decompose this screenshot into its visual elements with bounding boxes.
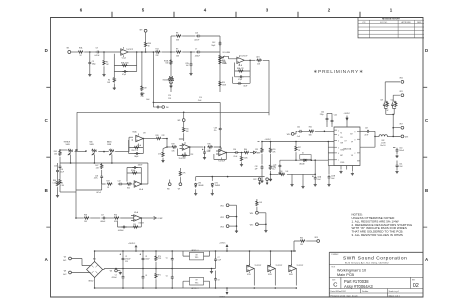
resistor R40: [244, 149, 250, 154]
wire bridge outputs: [94, 250, 104, 289]
svg-text:R35: R35: [208, 143, 211, 145]
resistor R28: [131, 169, 137, 174]
svg-text:COMP: COMP: [157, 218, 163, 220]
wire speaker rail: [392, 114, 400, 137]
svg-text:W11: W11: [220, 205, 223, 207]
ground C7A: [189, 73, 192, 76]
wire U4B out: [226, 152, 234, 154]
svg-text:W18: W18: [405, 137, 408, 139]
ground pads link 2: [264, 230, 267, 233]
wire to tone stack: [161, 51, 171, 53]
svg-text:C2: C2: [115, 275, 117, 277]
svg-text:R61: R61: [309, 127, 312, 129]
svg-text:APPROVED: APPROVED: [402, 21, 412, 24]
svg-text:R9: R9: [176, 48, 178, 50]
wire R35 to U4B: [214, 146, 221, 151]
resistor R6: [141, 51, 147, 93]
capacitor C42: [297, 127, 304, 138]
svg-text:W14: W14: [250, 213, 254, 215]
svg-text:W6: W6: [166, 107, 169, 109]
svg-text:CR3: CR3: [198, 182, 201, 184]
svg-text:INV: INV: [340, 137, 342, 139]
resistor R34 above W7: [179, 168, 186, 183]
capacitor C11: [238, 75, 244, 81]
svg-text:VP: VP: [351, 141, 353, 143]
svg-text:634: 634: [166, 63, 169, 65]
resistor R63B: [393, 101, 398, 114]
wire U1B output: [244, 60, 255, 62]
ground R6: [140, 93, 143, 96]
svg-text:R52: R52: [255, 149, 258, 151]
voltage regulator U8 7815: [183, 250, 210, 260]
capacitor C22: [118, 180, 124, 185]
capacitor C14 branch tap: [153, 102, 161, 108]
svg-text:C36: C36: [60, 169, 63, 171]
op-amp U4B: [216, 148, 226, 163]
capacitor C12 loop: [233, 77, 251, 88]
capacitor C44A: [273, 160, 281, 172]
capacitor C24: [127, 165, 142, 173]
svg-text:10uF: 10uF: [146, 99, 150, 101]
wire amp input: [296, 131, 334, 133]
svg-text:C17: C17: [101, 214, 104, 216]
ground C43B: [327, 184, 330, 187]
diode CR4: [211, 177, 220, 188]
wire loop upper branch: [153, 95, 221, 112]
svg-text:BST: BST: [340, 155, 343, 157]
capacitor C39 column: [255, 142, 264, 181]
svg-text:W8: W8: [178, 120, 181, 122]
node pad AC1 W2: [63, 256, 90, 265]
wire C30 junction: [239, 152, 243, 154]
resistor R26: [156, 135, 166, 140]
svg-text:REV: REV: [412, 279, 415, 281]
svg-text:W7: W7: [178, 189, 181, 191]
resistor R1: [78, 47, 84, 58]
ground R4: [113, 87, 116, 90]
svg-text:.22u: .22u: [213, 130, 216, 132]
svg-text:LM7915_V: LM7915_V: [191, 288, 199, 290]
ground C39: [260, 180, 263, 183]
svg-text:.22uF: .22uF: [233, 156, 237, 158]
svg-text:∗PRELIMINARY∗: ∗PRELIMINARY∗: [313, 69, 364, 75]
node pad W6: [162, 106, 169, 110]
svg-text:R29: R29: [172, 143, 175, 145]
svg-text:SIZE: SIZE: [332, 279, 335, 281]
svg-text:W21: W21: [400, 91, 403, 93]
potentiometer BASS: [107, 140, 129, 155]
svg-text:Main PCB: Main PCB: [337, 273, 355, 277]
svg-text:.047uF: .047uF: [96, 192, 101, 194]
capacitor C17: [90, 214, 106, 223]
capacitor C6: [166, 269, 174, 289]
svg-text:C7: C7: [218, 257, 220, 259]
wire U1A feedback loop: [114, 52, 136, 72]
svg-text:C5: C5: [166, 257, 168, 259]
diode CR1 CR2 pair: [163, 76, 174, 85]
capacitor C3 pos: [140, 251, 150, 269]
resistor R48: [76, 214, 89, 223]
svg-text:TL072CP: TL072CP: [276, 265, 283, 267]
svg-text:W9: W9: [140, 30, 143, 32]
svg-text:C14: C14: [199, 97, 202, 99]
svg-text:B: B: [425, 188, 428, 193]
svg-text:R70: R70: [158, 256, 161, 258]
ground R44: [56, 195, 59, 198]
svg-text:W22: W22: [253, 179, 256, 181]
resistor R14: [155, 48, 161, 57]
svg-text:R57: R57: [298, 147, 301, 149]
svg-text:C39: C39: [255, 166, 258, 168]
svg-text:SWR Sound Corporation: SWR Sound Corporation: [343, 256, 407, 262]
svg-text:W12: W12: [220, 217, 224, 219]
wire U7 feedback: [360, 136, 375, 147]
capacitor C7A: [185, 51, 192, 72]
svg-text:R14: R14: [156, 48, 159, 50]
node pad W14: [250, 211, 266, 215]
svg-text:SGND: SGND: [340, 149, 344, 151]
svg-text:.033uF: .033uF: [195, 55, 200, 57]
wire fuse to pads: [388, 135, 393, 137]
op-amp U2A: [129, 131, 147, 152]
svg-text:4700uF: 4700uF: [112, 277, 117, 279]
svg-text:LM7815_V: LM7815_V: [191, 250, 199, 252]
ground W4: [119, 272, 122, 275]
svg-text:OUT: OUT: [350, 133, 353, 135]
node pad W20: [400, 78, 404, 84]
resistor R58: [280, 171, 290, 176]
node +16VDC label: [128, 243, 137, 252]
svg-text:+15VDC: +15VDC: [219, 243, 226, 245]
svg-text:47pF: 47pF: [122, 74, 126, 76]
node pad W18: [401, 135, 408, 139]
svg-text:1N4148: 1N4148: [299, 163, 305, 165]
resistor R15: [219, 81, 227, 87]
node -15VDC tag: [219, 287, 228, 298]
capacitor C7 out: [214, 251, 221, 269]
resistor R32: [126, 183, 132, 190]
ground C50: [395, 155, 398, 158]
resistor R65: [300, 237, 306, 246]
node pad W22: [253, 178, 261, 185]
svg-text:.56uF: .56uF: [243, 86, 247, 88]
node tag COMP: [154, 217, 163, 221]
wire U2A out: [143, 138, 156, 140]
node pad W23: [266, 178, 272, 185]
resistor R27: [158, 147, 167, 160]
wire U4B feedback: [214, 152, 227, 160]
resistor R50: [132, 146, 140, 152]
op-amp U1B: [237, 55, 248, 67]
svg-text:180pF: 180pF: [134, 156, 138, 158]
svg-text:TL072CP: TL072CP: [297, 265, 304, 267]
svg-text:A21: A21: [257, 56, 260, 59]
svg-text:C43: C43: [273, 164, 276, 166]
capacitor C49: [380, 100, 385, 108]
wire box left pins: [328, 142, 334, 166]
svg-text:D1: D1: [302, 153, 304, 155]
resistor R2: [103, 52, 109, 74]
node pad W7: [178, 183, 182, 191]
svg-text:BR202: BR202: [89, 281, 94, 283]
svg-text:REVISION HISTORY: REVISION HISTORY: [382, 19, 401, 21]
svg-text:Drafter: Drafter: [362, 290, 369, 293]
svg-text:220: 220: [133, 224, 136, 226]
svg-text:220p: 220p: [320, 114, 324, 116]
ground U7 pin: [339, 171, 342, 174]
resistor R56: [269, 164, 275, 178]
wire output junction: [371, 131, 376, 137]
wire input junction: [84, 51, 95, 53]
wire U3A feedback: [118, 217, 143, 227]
ground R39: [240, 164, 243, 167]
svg-text:TL072CP: TL072CP: [126, 49, 134, 51]
svg-text:W17: W17: [400, 123, 403, 125]
svg-text:.22 5W: .22 5W: [381, 143, 386, 145]
svg-text:Assy #70064A3: Assy #70064A3: [344, 284, 373, 289]
wire W19 return: [293, 241, 300, 252]
resistor R17: [237, 67, 245, 72]
svg-text:U7: U7: [344, 140, 346, 142]
svg-text:SVR: SVR: [340, 143, 343, 145]
svg-text:PGND: PGND: [340, 162, 344, 164]
svg-text:1N4448: 1N4448: [163, 80, 169, 82]
wire U1A output: [129, 51, 155, 53]
op-amp U3B spare: [268, 250, 283, 289]
svg-text:C3: C3: [145, 256, 147, 258]
svg-text:243: 243: [96, 167, 99, 169]
wire U2B out: [190, 146, 206, 148]
capacitor C43B: [328, 166, 335, 184]
svg-text:8120 Gerwana Ave, Sun Valley,: 8120 Gerwana Ave, Sun Valley, CA 91352: [345, 261, 389, 264]
wire pot to U1B: [225, 56, 237, 59]
resistor R21: [256, 56, 262, 66]
wire pads link: [236, 205, 238, 230]
ground C27: [203, 157, 206, 160]
bridge rectifier BR1: [87, 259, 103, 283]
node pad W4 center tap: [110, 268, 121, 273]
node pad W13: [220, 225, 236, 229]
svg-text:D: D: [425, 48, 428, 53]
wire U4A feedback: [127, 173, 142, 185]
wire pot bottoms bus: [60, 155, 147, 164]
node pad W8: [178, 112, 186, 122]
svg-text:4700uF: 4700uF: [125, 259, 130, 261]
resistor R71: [155, 269, 161, 289]
voltage regulator U9 7915: [183, 277, 210, 289]
svg-text:R8: R8: [176, 32, 178, 34]
svg-text:TL072CP: TL072CP: [179, 158, 187, 160]
ground diode pair: [169, 85, 172, 88]
node pad W12: [220, 215, 236, 219]
svg-text:7815: 7815: [195, 257, 199, 259]
svg-text:R44: R44: [60, 182, 63, 184]
node pad W17: [400, 123, 404, 129]
capacitor C43A: [312, 174, 322, 183]
svg-text:TL072CP: TL072CP: [240, 56, 248, 58]
svg-text:C47: C47: [365, 128, 368, 130]
svg-text:Scale is pJ: Scale is pJ: [389, 291, 399, 293]
resistor R44 left edge: [56, 181, 64, 195]
potentiometer MID: [90, 141, 98, 155]
svg-text:3. ALL RESISTOR VALUES IN OHMS: 3. ALL RESISTOR VALUES IN OHMS: [352, 233, 403, 237]
ground bias a: [290, 174, 293, 186]
wire +16VDC rail: [261, 141, 334, 143]
wire column B to row1: [96, 179, 106, 193]
svg-text:C23: C23: [195, 32, 198, 34]
svg-text:.047uF: .047uF: [94, 55, 99, 57]
svg-text:R48: R48: [84, 214, 87, 216]
svg-text:.047uF: .047uF: [194, 39, 199, 41]
svg-text:TL072CP: TL072CP: [218, 160, 226, 162]
resistor R3: [121, 62, 129, 67]
svg-text:1N4448: 1N4448: [215, 185, 221, 187]
svg-text:W16: W16: [287, 134, 291, 136]
svg-text:W19: W19: [315, 237, 319, 239]
svg-text:R58: R58: [280, 171, 283, 173]
resistor R4: [107, 72, 116, 88]
node pad W6: [167, 180, 171, 191]
wire pads top: [385, 82, 400, 101]
svg-text:Date 08Jan1992: Date 08Jan1992: [331, 290, 347, 293]
node pad AC2 W3: [63, 270, 90, 276]
op-amp U6B spare: [289, 250, 304, 289]
capacitor C2: [94, 47, 100, 57]
capacitor C51: [396, 161, 403, 171]
svg-text:R50 2.7K: R50 2.7K: [132, 150, 139, 152]
wire R26 junction: [162, 138, 171, 148]
capacitor C30: [233, 149, 239, 158]
svg-text:243: 243: [54, 153, 57, 155]
ground C51: [395, 171, 398, 174]
op-amp U4A: [123, 181, 144, 191]
node pad W11: [220, 204, 236, 208]
svg-text:-15VDC: -15VDC: [219, 297, 226, 299]
svg-text:R25: R25: [186, 128, 189, 130]
svg-text:.068uF: .068uF: [100, 221, 105, 223]
svg-text:W6: W6: [167, 189, 170, 191]
capacitor C4: [122, 70, 128, 76]
svg-text:680: 680: [309, 134, 312, 136]
svg-text:C22: C22: [118, 180, 121, 182]
wire bias mid row: [280, 159, 328, 161]
svg-text:C8: C8: [96, 47, 98, 49]
resistor R47: [95, 163, 103, 169]
svg-text:C45: C45: [334, 115, 337, 117]
wire pairs join: [386, 114, 394, 116]
wire EQ to stage rail: [75, 149, 77, 219]
svg-text:W15: W15: [250, 225, 254, 227]
wire R46 to bus: [60, 191, 76, 193]
svg-text:Workingman's 10: Workingman's 10: [337, 268, 366, 272]
capacitor C10: [211, 41, 221, 47]
svg-text:U9: U9: [196, 280, 198, 282]
wire diode bus: [196, 176, 265, 178]
svg-text:243: 243: [300, 244, 303, 246]
svg-text:C1: C1: [125, 256, 127, 258]
wire C2 to U1A: [100, 51, 120, 53]
op-amp U3A: [120, 211, 144, 225]
ground C44A: [278, 172, 281, 175]
node pad W19: [306, 237, 319, 243]
capacitor C5: [166, 251, 174, 269]
node pad W9: [140, 29, 148, 32]
svg-text:C8: C8: [218, 279, 220, 281]
svg-text:R31: R31: [394, 102, 397, 104]
ground U7 pin2: [351, 173, 354, 176]
resistor R10A: [164, 59, 172, 65]
svg-text:C1B: C1B: [214, 127, 217, 129]
wire U2A feedback: [129, 138, 145, 148]
node pad W21: [400, 91, 404, 97]
svg-text:10uF: 10uF: [331, 178, 335, 180]
svg-text:1uF: 1uF: [186, 65, 189, 67]
svg-text:R26: R26: [156, 135, 159, 137]
node +16VDC amp: [258, 139, 272, 141]
svg-text:R40: R40: [244, 149, 247, 151]
svg-text:CR4: CR4: [215, 182, 218, 184]
capacitor C3: [88, 52, 95, 74]
wire pads link 2: [265, 213, 267, 230]
ground C43A: [314, 184, 317, 187]
capacitor C4 neg: [142, 269, 148, 289]
resistor R62 fuse: [375, 135, 388, 147]
capacitor C16: [54, 157, 61, 170]
svg-text:C: C: [333, 283, 337, 289]
ground bias b: [301, 174, 304, 188]
svg-text:820: 820: [127, 188, 130, 190]
wire bias link: [314, 160, 316, 174]
wire bias low row: [270, 174, 316, 176]
ground CR4: [211, 189, 214, 195]
wire R6B rail: [141, 51, 155, 102]
ground CR3: [194, 189, 197, 195]
resistor R8: [171, 32, 181, 41]
svg-text:10uF: 10uF: [317, 179, 321, 181]
svg-text:B: B: [45, 188, 48, 193]
svg-text:U2-B: U2-B: [247, 274, 251, 276]
wire EQ row: [59, 149, 78, 151]
capacitor C1B drop: [213, 112, 221, 147]
resistor R33: [181, 154, 194, 157]
capacitor C2 neg: [112, 269, 125, 289]
ground psu mid: [210, 268, 213, 273]
resistor R35: [207, 143, 213, 152]
wire psu bottom rail: [95, 287, 296, 289]
wire TREBLE to MID: [75, 150, 87, 152]
svg-text:100uF: 100uF: [145, 259, 149, 261]
diode D1: [299, 153, 311, 166]
resistor R9: [171, 48, 181, 57]
wire U4A out: [141, 163, 148, 184]
wire MID to BASS: [98, 151, 109, 153]
svg-text:U8: U8: [196, 254, 198, 256]
svg-text:.1uF: .1uF: [297, 136, 300, 138]
capacitor C8 out: [214, 271, 220, 289]
svg-text:R30: R30: [386, 102, 389, 104]
wire U1B out to loop rail: [263, 60, 269, 115]
wire C44 C45 top: [327, 112, 332, 114]
op-amp U2B: [179, 139, 190, 160]
wire U3A out: [141, 217, 153, 219]
resistor R45: [54, 150, 61, 156]
svg-text:W1: W1: [67, 47, 70, 49]
resistor R25: [183, 122, 190, 142]
svg-text:R55: R55: [273, 149, 276, 151]
resistor R61: [309, 127, 315, 137]
svg-text:7915: 7915: [195, 282, 199, 284]
op-amp U2B spare: [247, 250, 262, 289]
